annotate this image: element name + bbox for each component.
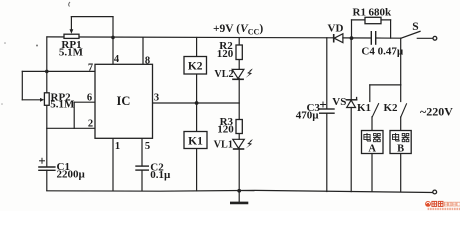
svg-text:3: 3 [154, 93, 159, 104]
svg-text:S: S [412, 21, 418, 33]
svg-text:K1: K1 [188, 136, 203, 148]
svg-text:470µ: 470µ [296, 109, 320, 121]
svg-text:VL2: VL2 [214, 69, 233, 80]
svg-text:IC: IC [117, 94, 131, 108]
svg-text:0.1µ: 0.1µ [150, 169, 171, 181]
svg-text:C4 0.47µ: C4 0.47µ [361, 46, 403, 58]
svg-text:K1: K1 [357, 102, 371, 114]
svg-text:VD: VD [328, 22, 344, 34]
svg-text:120: 120 [217, 123, 234, 135]
svg-text:VL1: VL1 [214, 140, 233, 151]
svg-text:~220V: ~220V [420, 105, 453, 119]
svg-text:B: B [397, 144, 404, 155]
svg-text:5.1M: 5.1M [50, 99, 75, 111]
svg-text:A: A [368, 144, 376, 155]
svg-text:5: 5 [145, 141, 150, 152]
svg-text:680k: 680k [369, 7, 393, 19]
svg-text:1: 1 [115, 141, 120, 152]
svg-text:R1: R1 [353, 7, 366, 19]
svg-text:K2: K2 [383, 102, 398, 114]
svg-text:K2: K2 [188, 61, 203, 73]
svg-text:8: 8 [145, 56, 150, 67]
svg-text:VS: VS [332, 96, 346, 108]
svg-text:120: 120 [217, 48, 234, 60]
svg-text:6: 6 [87, 93, 92, 104]
svg-text:2: 2 [88, 119, 93, 130]
svg-text:5.1M: 5.1M [59, 47, 84, 59]
svg-text:4: 4 [114, 54, 120, 65]
svg-text:2200µ: 2200µ [57, 168, 86, 180]
svg-text:7: 7 [88, 63, 93, 74]
